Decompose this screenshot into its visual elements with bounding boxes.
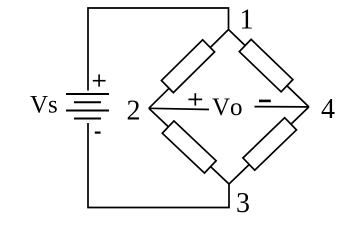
wire: bridge leg node1-node4	[229, 30, 309, 107]
battery Vs plate 1 (long, +)	[66, 93, 109, 95]
resistor body on leg 4-3	[243, 118, 297, 171]
wire: Vo left lead from node 2	[149, 108, 209, 109]
svg-text:4: 4	[321, 94, 335, 125]
resistor body on leg 2-3	[162, 121, 216, 173]
wire: bridge leg node1-node2	[149, 30, 229, 109]
svg-text:1: 1	[240, 5, 254, 36]
battery + polarity mark	[93, 74, 106, 86]
svg-text:3: 3	[236, 188, 250, 219]
resistor body on leg 1-4	[239, 39, 293, 91]
wire: Vo right lead from node 4	[255, 106, 309, 108]
battery Vs plate 3 (long)	[66, 110, 109, 112]
svg-text:Vo: Vo	[212, 94, 243, 121]
wire: bridge leg node4-node3	[229, 107, 309, 184]
battery Vs plate 2 (short)	[74, 101, 101, 103]
svg-text:2: 2	[127, 95, 141, 126]
resistor body on leg 1-2	[161, 40, 214, 93]
battery - polarity mark	[95, 132, 101, 134]
svg-text:Vs: Vs	[30, 92, 58, 119]
Vo + polarity mark	[188, 93, 202, 105]
wire: bridge leg node2-node3	[149, 108, 229, 184]
wire: battery bottom to node 3 (left vertical, bottom horizontal, rise to node 3)	[88, 123, 229, 208]
wire: battery top to node 1 (left vertical, top horizontal, drop to node 1)	[88, 8, 229, 91]
Vo - polarity mark	[259, 100, 271, 103]
battery Vs plate 4 (short, -)	[74, 118, 101, 120]
